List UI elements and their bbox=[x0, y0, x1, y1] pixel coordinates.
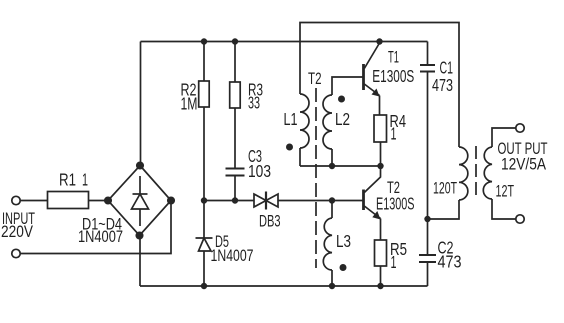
svg-text:R1: R1 bbox=[59, 170, 76, 190]
svg-text:DB3: DB3 bbox=[259, 213, 281, 231]
svg-text:1N4007: 1N4007 bbox=[78, 228, 123, 246]
wire: left vertical, top rail to bridge + bbox=[140, 42, 142, 166]
wire: primary bottom lead to C junction bbox=[428, 200, 460, 219]
wire: L1 top over box top to primary top bbox=[300, 23, 459, 148]
capacitor C2 bbox=[419, 219, 462, 286]
wire: bottom DC- rail bbox=[140, 285, 428, 287]
resistor R2 bbox=[181, 80, 210, 114]
resistor R4 bbox=[374, 111, 406, 166]
terminal: output bottom bbox=[516, 215, 524, 223]
diac DB3 bbox=[254, 192, 281, 231]
wire: top DC+ rail bbox=[141, 41, 428, 43]
svg-text:1N4007: 1N4007 bbox=[211, 247, 254, 265]
svg-text:473: 473 bbox=[432, 75, 453, 95]
transistor T2 bbox=[364, 166, 415, 240]
node: R4 / T2 collector bbox=[377, 163, 383, 169]
wire: bridge - down to bottom rail bbox=[139, 236, 141, 287]
svg-text:12T: 12T bbox=[496, 183, 515, 201]
wire: emitter junction rail y=166 bbox=[300, 165, 381, 167]
transformer T3 core bbox=[475, 146, 477, 199]
capacitor C3 bbox=[226, 146, 272, 181]
svg-text:12V/5A: 12V/5A bbox=[501, 156, 546, 174]
node: bottom rail / L3 bbox=[329, 283, 335, 289]
svg-text:120T: 120T bbox=[433, 180, 457, 198]
transformer T3 primary 120T bbox=[433, 147, 468, 200]
node: T1 collector on rail bbox=[376, 38, 382, 44]
wire: trigger node to DB3 bbox=[204, 200, 254, 202]
terminal: output top bbox=[516, 124, 524, 132]
svg-text:1: 1 bbox=[391, 124, 397, 144]
node: L2 bottom junction bbox=[329, 163, 335, 169]
node: trigger / L3 top bbox=[329, 197, 335, 203]
wire: R3 branch from top rail bbox=[234, 42, 236, 83]
svg-text:1: 1 bbox=[391, 252, 397, 272]
inductor L3 bbox=[323, 201, 351, 287]
transformer T2 core bbox=[308, 70, 322, 268]
svg-text:473: 473 bbox=[438, 252, 462, 272]
wire: input bottom terminal to bridge AC right bbox=[20, 201, 171, 254]
label OUT PUT 12V/5A bbox=[498, 140, 548, 174]
wire: DB3 to T2 base bbox=[278, 200, 364, 202]
node: trigger / R3-C3 bbox=[232, 197, 238, 203]
wire: input top terminal to R1 bbox=[20, 200, 47, 202]
node: top rail / R3 bbox=[232, 38, 238, 44]
svg-text:T2: T2 bbox=[308, 70, 322, 88]
bridge rectifier D1~D4 bbox=[78, 162, 174, 246]
resistor R5 bbox=[375, 239, 408, 286]
wire: secondary bottom lead bbox=[492, 199, 516, 219]
svg-text:L3: L3 bbox=[336, 231, 351, 251]
wire: R2 to trigger node bbox=[203, 107, 205, 201]
svg-text:L1: L1 bbox=[284, 109, 298, 129]
transistor T1 bbox=[364, 43, 415, 115]
node: trigger / R2-D5 bbox=[201, 197, 207, 203]
wire: R2 branch from top rail bbox=[203, 42, 205, 82]
svg-text:220V: 220V bbox=[1, 223, 33, 241]
capacitor C1 bbox=[420, 42, 453, 220]
diode D5 bbox=[196, 201, 254, 287]
svg-text:1M: 1M bbox=[181, 94, 198, 114]
inductor L2 bbox=[323, 77, 364, 166]
node: top rail / R2 bbox=[201, 38, 207, 44]
label INPUT 220V bbox=[1, 210, 35, 241]
resistor R1 bbox=[48, 170, 109, 209]
svg-text:L2: L2 bbox=[335, 109, 350, 129]
inductor L1 bbox=[284, 94, 310, 166]
svg-text:T1: T1 bbox=[388, 49, 399, 67]
wire: secondary top lead bbox=[492, 128, 516, 147]
svg-text:E1300S: E1300S bbox=[372, 66, 414, 86]
svg-text:1: 1 bbox=[82, 170, 88, 190]
terminal: input bottom bbox=[12, 249, 20, 257]
node: C1 / C2 / primary bottom bbox=[424, 216, 430, 222]
node: bottom rail / D5 bbox=[201, 283, 207, 289]
wire: R3 to C3 bbox=[234, 108, 236, 169]
transformer T3 secondary 12T bbox=[483, 147, 514, 201]
svg-text:33: 33 bbox=[248, 93, 260, 113]
resistor R3 bbox=[230, 80, 263, 113]
svg-text:103: 103 bbox=[248, 161, 271, 181]
node: bottom rail / R5 bbox=[377, 283, 383, 289]
wire: C3 to trigger node bbox=[234, 176, 236, 201]
terminal: input top bbox=[12, 196, 20, 204]
svg-text:E1300S: E1300S bbox=[376, 194, 415, 214]
